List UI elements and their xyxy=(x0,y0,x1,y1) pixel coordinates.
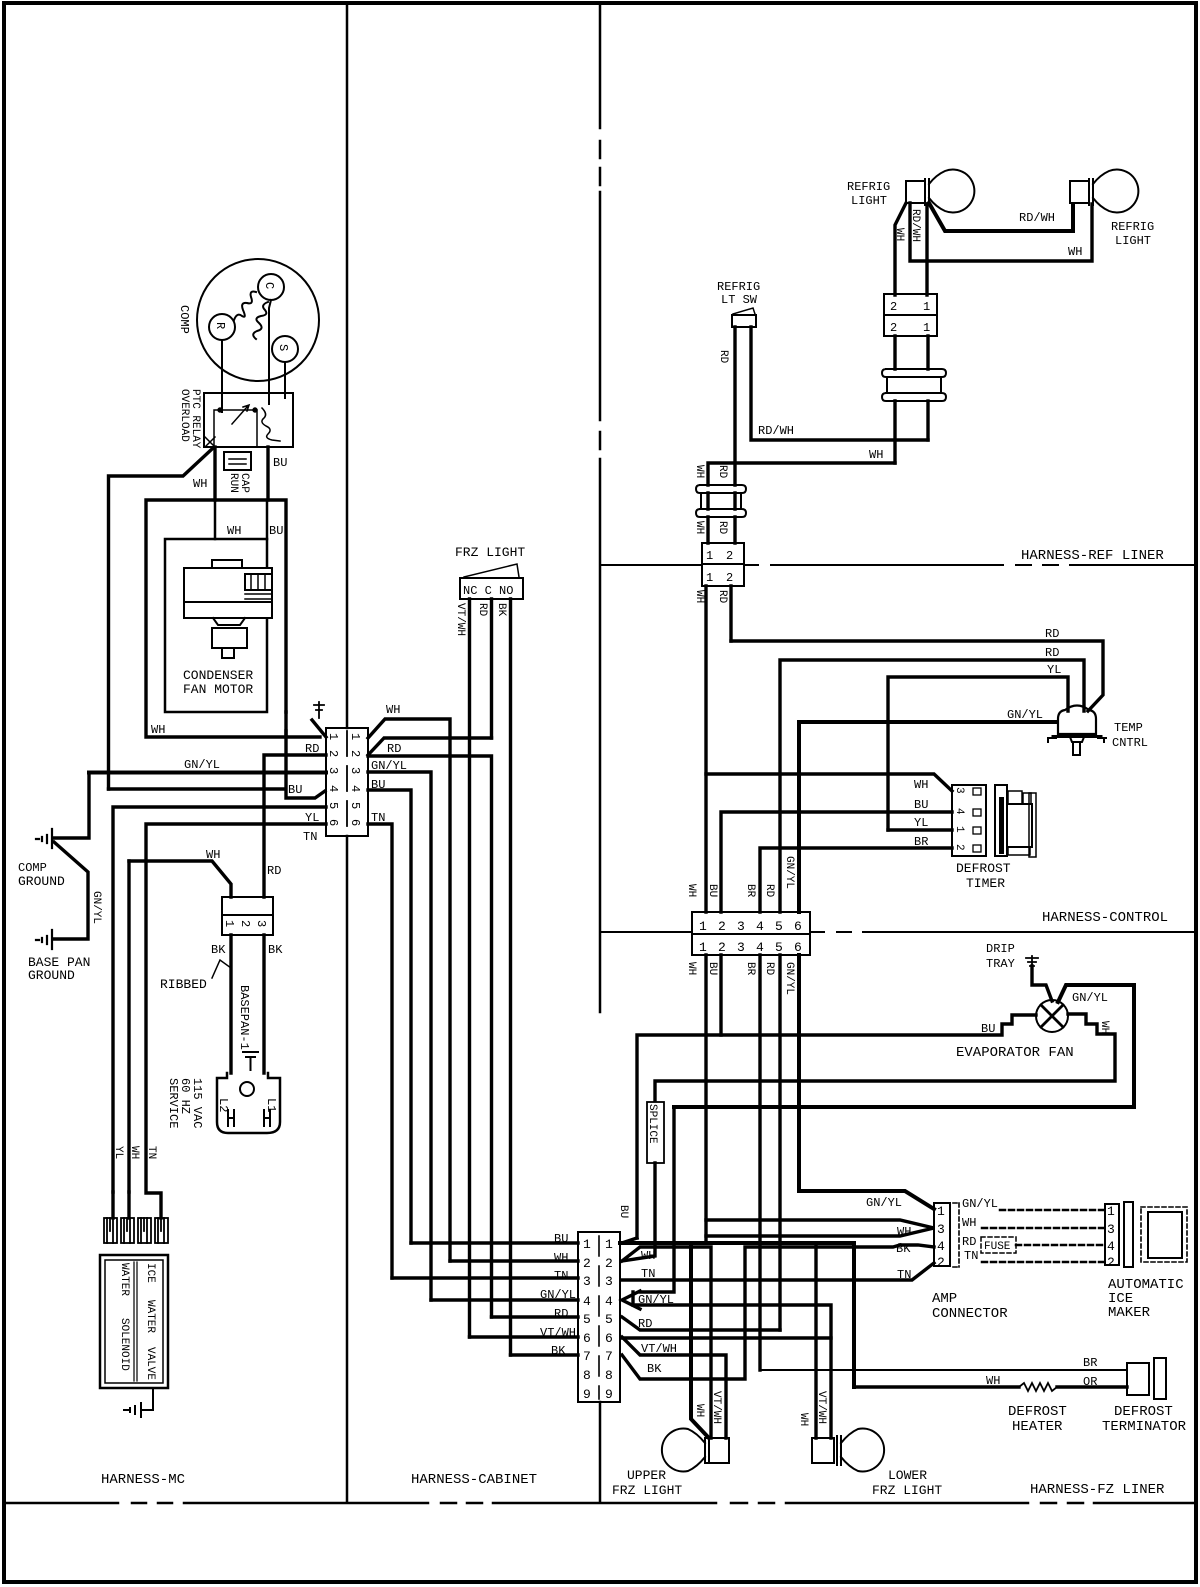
svg-text:FRZ LIGHT: FRZ LIGHT xyxy=(872,1483,942,1498)
wire WH bulb L1 down xyxy=(895,203,906,295)
basepan-1 tick symbol xyxy=(243,1052,258,1070)
svg-text:FUSE: FUSE xyxy=(984,1241,1011,1253)
svg-text:BK: BK xyxy=(647,1362,662,1376)
wire RD pin2-left down to basepan connector xyxy=(264,755,326,897)
svg-text:DEFROST: DEFROST xyxy=(1008,1404,1067,1420)
svg-text:GN/YL: GN/YL xyxy=(540,1288,576,1302)
refrig light bulb L2 base xyxy=(1070,181,1089,203)
svg-text:LT SW: LT SW xyxy=(721,293,758,307)
wire RD/WH splice down xyxy=(926,401,929,440)
svg-text:TN: TN xyxy=(641,1267,655,1281)
refrig light bulb L1 base xyxy=(906,181,925,203)
svg-text:BK: BK xyxy=(211,943,226,957)
svg-text:2: 2 xyxy=(718,919,726,934)
bulb L1 glass xyxy=(929,170,974,213)
valve inner divider xyxy=(134,1262,137,1381)
wire relay to run cap WH xyxy=(213,447,216,500)
wire WH control pin1 down xyxy=(704,955,707,1240)
defrost heater R1 coil xyxy=(1019,1383,1057,1391)
svg-text:GN/YL: GN/YL xyxy=(962,1197,998,1211)
svg-text:OR: OR xyxy=(1083,1375,1097,1389)
svg-text:RD: RD xyxy=(763,962,775,976)
svg-text:5: 5 xyxy=(583,1312,591,1327)
svg-text:6: 6 xyxy=(583,1331,591,1346)
bottom separator line y=1503 xyxy=(4,1502,1196,1505)
svg-text:2: 2 xyxy=(937,1255,945,1270)
svg-text:2: 2 xyxy=(1107,1255,1115,1270)
svg-text:5: 5 xyxy=(605,1312,613,1327)
wire RD control pin5 down xyxy=(778,955,781,1330)
svg-text:WH: WH xyxy=(1068,245,1082,259)
wire YL temp to timer pin1 xyxy=(888,677,1068,830)
svg-text:RD/WH: RD/WH xyxy=(1019,211,1055,225)
svg-text:WH: WH xyxy=(685,962,697,975)
svg-text:1: 1 xyxy=(326,733,340,740)
svg-text:BU: BU xyxy=(617,1205,629,1218)
svg-text:VT/WH: VT/WH xyxy=(454,603,466,636)
svg-text:4: 4 xyxy=(937,1239,945,1254)
svg-text:RD: RD xyxy=(1045,646,1059,660)
svg-text:RD: RD xyxy=(305,742,319,756)
svg-text:TN: TN xyxy=(964,1249,978,1263)
svg-text:4: 4 xyxy=(326,785,340,792)
svg-text:WH: WH xyxy=(986,1374,1000,1388)
svg-text:6: 6 xyxy=(348,819,362,826)
relay inner frame xyxy=(214,410,257,447)
svg-text:3: 3 xyxy=(953,787,965,794)
svg-text:RUN: RUN xyxy=(227,473,239,493)
wire WH return from bulb L2 xyxy=(910,203,1092,261)
section divider CABINET/FZ x=600 xyxy=(599,5,602,1012)
overload PTC relay box U1 xyxy=(204,393,293,447)
refrig lt sw S1 xyxy=(732,315,756,327)
svg-text:BK: BK xyxy=(551,1344,566,1358)
wire RD/WH from switch down and right xyxy=(751,327,928,440)
wire RD/WH bulb L1 down xyxy=(925,204,928,295)
svg-text:5: 5 xyxy=(348,802,362,809)
svg-text:2: 2 xyxy=(890,321,897,335)
svg-text:1: 1 xyxy=(706,571,713,585)
svg-text:WH: WH xyxy=(685,884,697,897)
svg-text:TN: TN xyxy=(897,1268,911,1282)
ice maker pins body xyxy=(1105,1204,1119,1265)
svg-text:OVERLOAD: OVERLOAD xyxy=(178,389,190,442)
svg-text:CONDENSER: CONDENSER xyxy=(183,668,253,683)
svg-text:EVAPORATOR FAN: EVAPORATOR FAN xyxy=(956,1045,1074,1061)
svg-text:RD: RD xyxy=(638,1317,652,1331)
winding coil R-C xyxy=(234,292,256,320)
svg-text:R: R xyxy=(213,322,227,329)
wire GN/YL temp to control pin6 xyxy=(799,722,1056,912)
svg-text:RD: RD xyxy=(476,603,488,617)
plug center hole O xyxy=(240,1082,254,1096)
svg-text:1: 1 xyxy=(222,920,236,927)
svg-text:1: 1 xyxy=(953,826,965,833)
svg-text:WH: WH xyxy=(893,228,905,241)
cabinet connector J6 body xyxy=(578,1232,620,1402)
wire TN dashed to ice maker xyxy=(982,1261,1105,1264)
wire RD dashed to ice maker xyxy=(1016,1244,1105,1247)
svg-text:UPPER: UPPER xyxy=(627,1468,666,1483)
svg-text:WH: WH xyxy=(869,448,883,462)
svg-text:9: 9 xyxy=(605,1387,613,1402)
svg-text:BK: BK xyxy=(896,1242,911,1256)
svg-text:9: 9 xyxy=(583,1387,591,1402)
svg-text:RD: RD xyxy=(554,1307,568,1321)
ice maker body dashed xyxy=(1141,1207,1187,1262)
svg-text:WH: WH xyxy=(641,1249,655,1263)
svg-text:1: 1 xyxy=(923,321,930,335)
svg-text:FRZ LIGHT: FRZ LIGHT xyxy=(455,545,525,560)
svg-text:C: C xyxy=(262,282,276,289)
svg-text:GROUND: GROUND xyxy=(18,874,65,889)
svg-text:YL: YL xyxy=(1047,663,1061,677)
motor mount block xyxy=(212,628,247,648)
upper FRZ bulb base xyxy=(705,1438,729,1463)
wires into cabinet connector left side xyxy=(392,1243,578,1355)
wires J4 down to splice xyxy=(895,336,928,369)
control connector J2 row1 xyxy=(692,912,810,934)
svg-text:SPLICE: SPLICE xyxy=(646,1104,658,1144)
svg-text:3: 3 xyxy=(737,940,745,955)
svg-text:1: 1 xyxy=(605,1237,613,1252)
amp connector J7 pins body xyxy=(934,1203,950,1266)
comp ground symbol xyxy=(36,829,52,848)
valve ground symbol xyxy=(124,1403,141,1417)
svg-text:CNTRL: CNTRL xyxy=(1112,736,1148,750)
lower FRZ bulb base xyxy=(812,1438,834,1463)
wire WH to defrost heater xyxy=(854,1385,1019,1388)
svg-text:4: 4 xyxy=(348,785,362,792)
wire WH dashed to ice maker xyxy=(982,1227,1105,1230)
svg-text:BR: BR xyxy=(744,962,756,976)
svg-text:HEATER: HEATER xyxy=(1012,1419,1063,1435)
wire BK basepan pin3 down to cord xyxy=(262,935,265,1073)
wire VT/WH pin6 branch lower bulb xyxy=(622,1336,831,1339)
svg-text:COMP: COMP xyxy=(177,305,191,334)
svg-text:TN: TN xyxy=(145,1146,157,1159)
wire BR defrost heater line xyxy=(760,1369,1127,1371)
svg-text:RD: RD xyxy=(717,350,729,364)
wire GN/YL loop to lower bulb xyxy=(633,1292,831,1438)
section divider MC/CABINET x=347 xyxy=(346,5,349,1502)
svg-text:GN/YL: GN/YL xyxy=(90,891,102,924)
svg-text:BU: BU xyxy=(706,962,718,975)
wire WH pin2 right to upper bulb xyxy=(622,1247,711,1438)
temp control flange xyxy=(1053,735,1101,738)
svg-text:2: 2 xyxy=(726,571,733,585)
timer mechanism body xyxy=(995,785,1007,856)
wire RD switch C down xyxy=(490,599,493,738)
wire relay WH diagonal to left bus xyxy=(109,449,213,789)
svg-text:NC C NO: NC C NO xyxy=(463,584,513,598)
svg-text:2: 2 xyxy=(726,549,733,563)
wire TN pin6 right xyxy=(368,824,392,1278)
relay PTC coil squiggle xyxy=(262,408,280,441)
svg-text:TN: TN xyxy=(371,811,385,825)
cabinet connector dashed divider xyxy=(598,1236,600,1399)
svg-text:GN/YL: GN/YL xyxy=(1007,708,1043,722)
svg-text:1: 1 xyxy=(1107,1204,1115,1219)
wire R down to relay xyxy=(221,340,223,412)
svg-text:1: 1 xyxy=(923,300,930,314)
svg-text:AMP: AMP xyxy=(932,1291,957,1307)
wire GN/YL dashed to ice maker xyxy=(1000,1209,1105,1212)
svg-text:WH: WH xyxy=(914,778,928,792)
svg-text:WATER: WATER xyxy=(144,1300,156,1333)
base pan ground symbol xyxy=(36,930,52,949)
svg-text:LIGHT: LIGHT xyxy=(1115,234,1151,248)
svg-text:REFRIG: REFRIG xyxy=(1111,220,1154,234)
svg-text:2: 2 xyxy=(326,750,340,757)
svg-text:2: 2 xyxy=(718,940,726,955)
svg-text:6: 6 xyxy=(326,819,340,826)
wire BU diag to cabinet pin1 xyxy=(622,1238,637,1243)
ice water valve box xyxy=(100,1255,168,1388)
svg-text:CONNECTOR: CONNECTOR xyxy=(932,1306,1008,1322)
lower FRZ bulb glass xyxy=(841,1429,884,1472)
wire BU control pin2 down xyxy=(719,955,722,1035)
plug prong L2 xyxy=(228,1110,234,1126)
HARNESS-CONTROL separator y=932 xyxy=(600,931,1196,933)
svg-text:VT/WH: VT/WH xyxy=(815,1391,827,1424)
svg-text:WH: WH xyxy=(554,1251,568,1265)
svg-text:RD/WH: RD/WH xyxy=(909,209,921,242)
wire TN pin3 right to amp xyxy=(622,1263,934,1280)
HARNESS-REF LINER separator y=565 xyxy=(600,564,1196,566)
compressor COMP outer circle xyxy=(197,259,319,381)
FRZ light switch S2 box NC C NO xyxy=(460,578,523,599)
wire YL bus vertical xyxy=(113,807,326,1192)
timer top tabs xyxy=(1008,791,1022,804)
relay Z mark xyxy=(205,437,215,447)
plug prong L1 xyxy=(264,1110,270,1126)
relay contact dots xyxy=(218,408,222,412)
svg-text:DEFROST: DEFROST xyxy=(956,861,1011,876)
svg-text:BASEPAN-1: BASEPAN-1 xyxy=(237,985,251,1050)
svg-text:8: 8 xyxy=(605,1368,613,1383)
svg-text:5: 5 xyxy=(775,940,783,955)
wire GN/YL fan to right xyxy=(674,985,1134,1107)
control connector J2 row2 xyxy=(692,934,810,955)
svg-text:2: 2 xyxy=(890,300,897,314)
svg-text:REFRIG: REFRIG xyxy=(847,180,890,194)
wire GN/YL pin3 right xyxy=(368,772,431,1300)
svg-text:WH: WH xyxy=(693,465,705,478)
svg-text:BU: BU xyxy=(914,798,928,812)
upper connector center dashed divider xyxy=(346,731,348,826)
svg-text:GROUND: GROUND xyxy=(28,968,75,983)
timer pin holes xyxy=(973,788,981,795)
svg-text:7: 7 xyxy=(605,1349,613,1364)
svg-text:BU: BU xyxy=(554,1232,568,1246)
defrost terminator cap xyxy=(1154,1358,1166,1399)
svg-text:LOWER: LOWER xyxy=(888,1468,927,1483)
wire S down to relay xyxy=(284,362,286,398)
run capacitor C1 xyxy=(224,452,251,470)
wire WH horizontal to splice2 xyxy=(708,463,895,485)
svg-text:RD: RD xyxy=(1045,627,1059,641)
motor top cap xyxy=(212,560,242,568)
wires J5 down xyxy=(706,586,731,912)
svg-text:3: 3 xyxy=(1107,1222,1115,1237)
wire WH fan right xyxy=(655,1014,1115,1102)
svg-text:S: S xyxy=(276,344,290,351)
svg-text:GN/YL: GN/YL xyxy=(638,1293,674,1307)
condenser fan motor outer loop xyxy=(146,500,320,737)
svg-text:HARNESS-CABINET: HARNESS-CABINET xyxy=(411,1472,537,1488)
motor lower band xyxy=(184,602,272,618)
svg-text:VT/WH: VT/WH xyxy=(641,1342,677,1356)
wire GN/YL down to arrow xyxy=(622,1107,674,1309)
wire GN/YL control pin6 down thick xyxy=(797,955,801,1191)
svg-text:WH: WH xyxy=(151,723,165,737)
svg-text:LIGHT: LIGHT xyxy=(851,194,887,208)
svg-text:GN/YL: GN/YL xyxy=(1072,991,1108,1005)
svg-text:BK: BK xyxy=(268,943,283,957)
wire BR control pin4 down xyxy=(758,955,761,1370)
svg-text:VT/WH: VT/WH xyxy=(710,1391,722,1424)
svg-text:WATER: WATER xyxy=(118,1263,130,1296)
refrig connector J4 row2 xyxy=(884,315,937,336)
motor M1 body xyxy=(184,568,272,602)
service cord plug P1 outline xyxy=(217,1073,280,1133)
svg-text:1: 1 xyxy=(699,940,707,955)
temp control TC1 body xyxy=(1058,706,1096,735)
svg-text:HARNESS-FZ LINER: HARNESS-FZ LINER xyxy=(1030,1482,1165,1498)
svg-text:RD: RD xyxy=(267,864,281,878)
svg-text:WH: WH xyxy=(693,590,705,603)
evaporator fan M2 xyxy=(1036,1000,1068,1032)
svg-text:HARNESS-MC: HARNESS-MC xyxy=(101,1472,185,1488)
ice maker bar xyxy=(1124,1202,1133,1267)
wire WH J5 to timer pin3 xyxy=(706,774,952,791)
ref liner connector J5 row1 xyxy=(702,543,744,564)
wire WH bus to connector row4 xyxy=(109,787,286,790)
bulb L1 base double line xyxy=(925,179,929,205)
wire BU pin4 right xyxy=(368,790,411,1243)
wire WH to amp pin3 xyxy=(706,1220,934,1236)
wire GN/YL down to comp ground xyxy=(53,773,89,839)
svg-text:WH: WH xyxy=(962,1216,976,1230)
svg-text:WH: WH xyxy=(797,1413,809,1426)
wire WH pin1 right xyxy=(368,719,450,1261)
svg-text:5: 5 xyxy=(775,919,783,934)
switch lever flag xyxy=(464,564,519,577)
defrost terminator S3 body xyxy=(1127,1363,1149,1395)
svg-text:TN: TN xyxy=(554,1269,568,1283)
timer gear box xyxy=(1007,804,1032,847)
svg-text:BR: BR xyxy=(914,835,928,849)
wire RD through splice2 xyxy=(708,493,735,543)
splice barrel SP2 xyxy=(696,485,746,517)
svg-text:4: 4 xyxy=(756,919,764,934)
basepan connector J3 pin row xyxy=(222,915,273,935)
compressor terminal C xyxy=(258,274,284,300)
svg-text:BU: BU xyxy=(981,1022,995,1036)
wire GN/YL horizontal to pin3 xyxy=(89,771,326,775)
svg-text:TERMINATOR: TERMINATOR xyxy=(1102,1419,1187,1435)
svg-text:RD: RD xyxy=(716,590,728,604)
refrig lt sw lever xyxy=(733,308,755,314)
ribbed pointer line xyxy=(212,960,231,978)
ice maker bracket dashed xyxy=(953,1203,959,1267)
svg-text:YL: YL xyxy=(112,1146,124,1159)
fuse F1 dashed box xyxy=(981,1237,1016,1253)
bulb L2 base double line xyxy=(1089,179,1093,205)
svg-text:6: 6 xyxy=(605,1331,613,1346)
svg-text:YL: YL xyxy=(305,811,319,825)
compressor terminal S xyxy=(272,336,298,362)
svg-text:DRIP: DRIP xyxy=(986,942,1015,956)
timer bottom tab xyxy=(1008,847,1030,855)
svg-text:60 HZ: 60 HZ xyxy=(178,1078,192,1114)
svg-text:7: 7 xyxy=(583,1349,591,1364)
wire BU fan left xyxy=(637,1015,1036,1238)
svg-text:RIBBED: RIBBED xyxy=(160,977,207,992)
svg-text:3: 3 xyxy=(605,1274,613,1289)
svg-text:RD: RD xyxy=(716,521,728,535)
wire VT/WH switch NC down xyxy=(468,599,471,1337)
lower bulb base double line xyxy=(837,1436,841,1465)
svg-text:VT/WH: VT/WH xyxy=(540,1326,576,1340)
wire BR timer pin2 xyxy=(760,848,952,912)
motor stub xyxy=(222,648,234,658)
wire tick diagonal to pin1 xyxy=(312,720,326,737)
svg-text:1: 1 xyxy=(937,1204,945,1219)
svg-text:1: 1 xyxy=(706,549,713,563)
wire RD/WH thick between bulbs xyxy=(929,203,1073,231)
svg-text:2: 2 xyxy=(238,920,252,927)
upper FRZ bulb glass xyxy=(662,1429,705,1472)
svg-text:RD/WH: RD/WH xyxy=(758,424,794,438)
timer dark band xyxy=(999,797,1004,854)
svg-text:1: 1 xyxy=(699,919,707,934)
svg-text:WH: WH xyxy=(128,1146,140,1159)
svg-text:HARNESS-CONTROL: HARNESS-CONTROL xyxy=(1042,910,1168,926)
splice SP3 box xyxy=(647,1102,664,1163)
wire WH to basepan connector pin1 xyxy=(129,861,231,897)
svg-text:DEFROST: DEFROST xyxy=(1114,1404,1173,1420)
svg-text:WH: WH xyxy=(206,848,220,862)
wire WH splice down xyxy=(893,401,896,463)
compressor terminal R xyxy=(209,314,235,340)
svg-text:WH: WH xyxy=(386,703,400,717)
svg-text:GN/YL: GN/YL xyxy=(184,758,220,772)
svg-text:8: 8 xyxy=(583,1368,591,1383)
basepan connector J3 body xyxy=(222,897,273,915)
wire VT/WH pin6 right to upper bulb xyxy=(622,1337,726,1438)
wire drip tray to fan xyxy=(1032,966,1052,1001)
svg-text:WH: WH xyxy=(1098,1021,1110,1034)
svg-text:4: 4 xyxy=(756,940,764,955)
svg-text:2: 2 xyxy=(583,1256,591,1271)
relay contact arm xyxy=(232,405,249,424)
svg-text:SOLENOID: SOLENOID xyxy=(118,1318,130,1371)
svg-text:GN/YL: GN/YL xyxy=(783,962,795,995)
chassis tick at pin1 xyxy=(314,702,324,718)
wire relay BU down xyxy=(266,447,269,500)
svg-text:GN/YL: GN/YL xyxy=(783,856,795,889)
wire RD pin2 branch down xyxy=(368,756,492,1317)
svg-text:TRAY: TRAY xyxy=(986,957,1015,971)
temp control stem xyxy=(1070,737,1084,742)
winding coil C-S xyxy=(253,302,268,339)
ref liner connector J5 row2 xyxy=(702,564,744,586)
ice maker body inner xyxy=(1148,1212,1182,1258)
svg-text:4: 4 xyxy=(953,808,965,815)
svg-text:VALVE: VALVE xyxy=(144,1347,156,1380)
